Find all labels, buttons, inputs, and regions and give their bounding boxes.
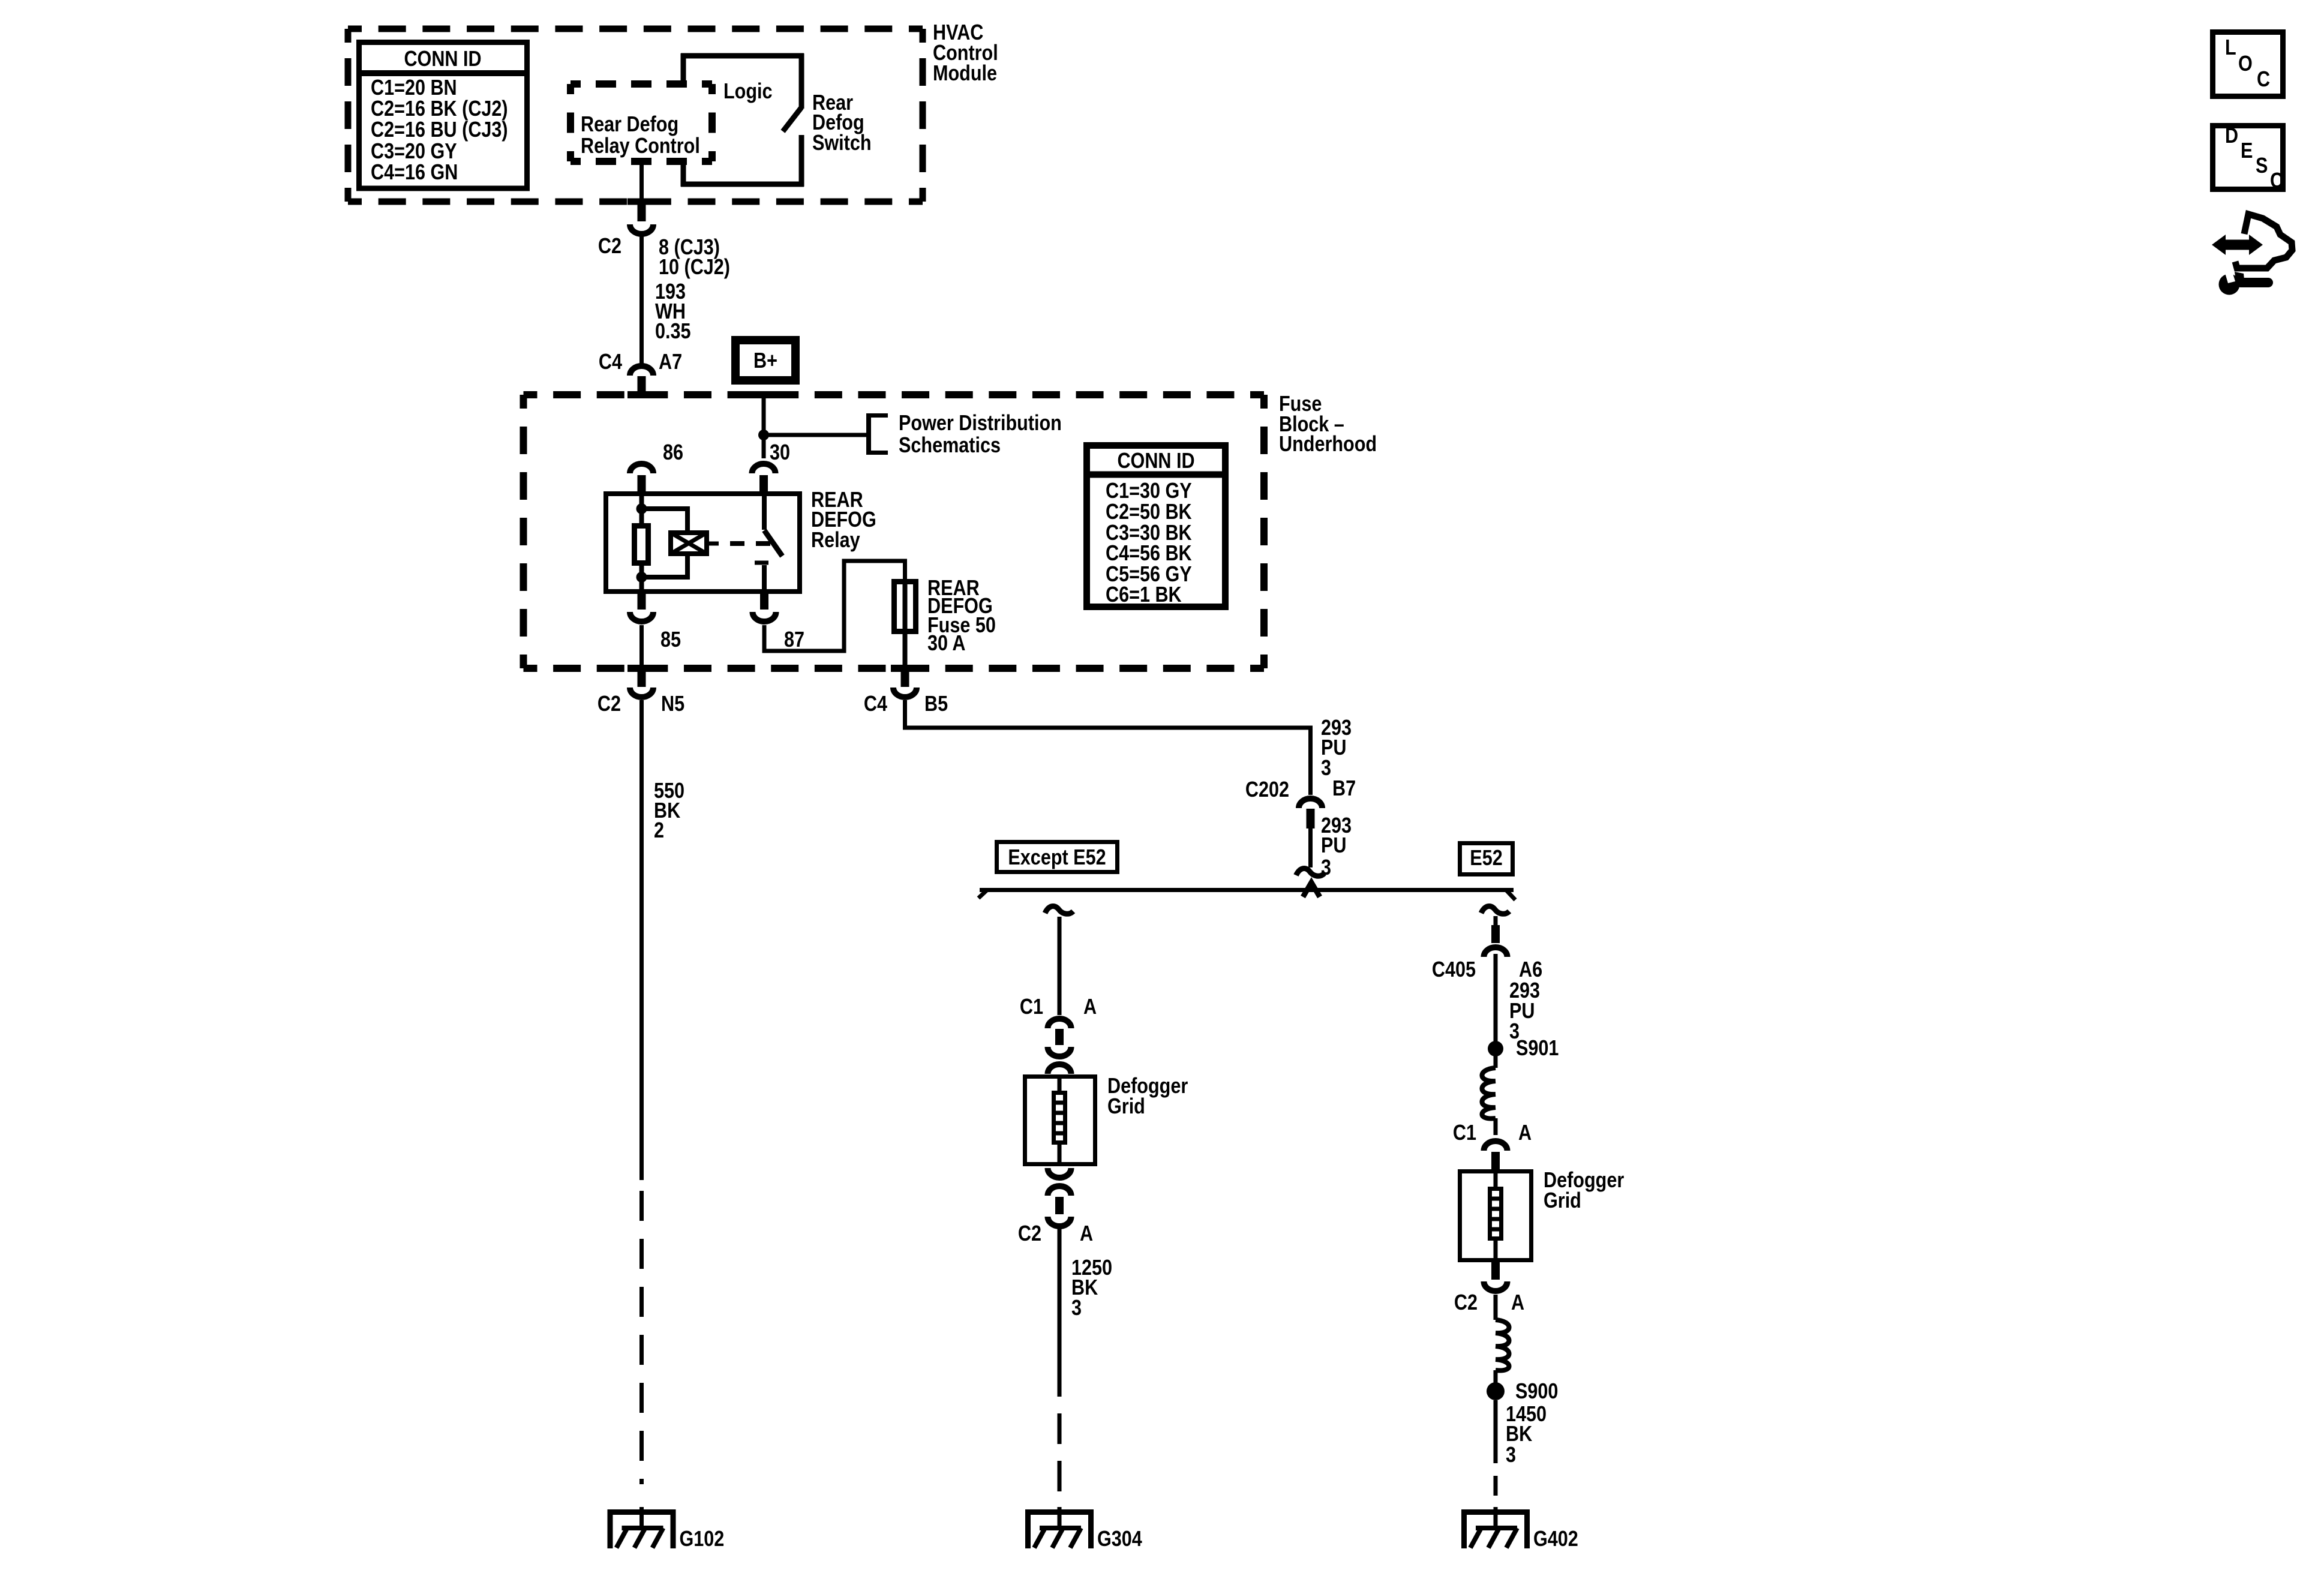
svg-text:E: E — [2241, 139, 2253, 163]
connector C405 A6 — [1432, 958, 1542, 982]
svg-text:D: D — [2225, 124, 2238, 148]
svg-text:E52: E52 — [1470, 846, 1502, 870]
svg-text:C3=20 GY: C3=20 GY — [371, 140, 457, 164]
svg-text:C1=30 GY: C1=30 GY — [1106, 479, 1192, 503]
coiled wire 2 — [1496, 1295, 1509, 1383]
svg-text:3: 3 — [1321, 757, 1331, 781]
connector C2 N5 — [597, 668, 684, 716]
svg-text:C4: C4 — [864, 692, 887, 716]
svg-text:30: 30 — [770, 441, 790, 465]
svg-text:O: O — [2238, 52, 2253, 76]
wire relay control to C2 — [639, 161, 644, 205]
svg-text:Except E52: Except E52 — [1008, 846, 1106, 870]
relay switch — [755, 496, 782, 594]
svg-text:B+: B+ — [753, 349, 777, 373]
svg-text:C202: C202 — [1245, 778, 1289, 802]
splice S901 — [1488, 1037, 1559, 1061]
direction/repair icon — [2212, 214, 2292, 295]
svg-text:C: C — [2257, 68, 2270, 92]
svg-text:0.35: 0.35 — [655, 320, 691, 344]
svg-text:PU: PU — [1321, 834, 1346, 858]
junction node — [758, 430, 769, 440]
wire B5 to C202 — [905, 700, 1311, 795]
svg-text:S: S — [2256, 154, 2268, 178]
wire to power distribution schematics — [764, 433, 869, 437]
ground G304 — [1025, 1507, 1142, 1551]
dashed wire to G102 — [639, 1191, 644, 1484]
svg-text:A: A — [1518, 1121, 1532, 1145]
svg-text:C2: C2 — [1454, 1291, 1478, 1315]
svg-text:C2=16 BK (CJ2): C2=16 BK (CJ2) — [371, 97, 508, 121]
svg-text:87: 87 — [784, 628, 804, 652]
relay pin 87 connector — [753, 594, 805, 652]
ground G102 — [608, 1507, 725, 1551]
svg-text:C1: C1 — [1020, 995, 1043, 1019]
svg-text:B5: B5 — [924, 692, 948, 716]
bracket — [869, 413, 888, 455]
svg-text:CONN ID: CONN ID — [404, 47, 481, 71]
C202 lower connector half — [1296, 868, 1325, 876]
right branch drop — [1481, 906, 1509, 957]
svg-text:3: 3 — [1506, 1443, 1516, 1467]
svg-text:3: 3 — [1071, 1296, 1082, 1320]
Logic box — [681, 53, 804, 187]
Fuse Block - Underhood dashed box — [524, 395, 1265, 668]
svg-text:N5: N5 — [661, 692, 684, 716]
svg-text:C2: C2 — [1018, 1222, 1041, 1246]
connector C2 A left — [1018, 1168, 1093, 1246]
connector C1 A left — [1020, 995, 1097, 1074]
wire 85 down — [639, 625, 644, 668]
svg-text:C1: C1 — [1453, 1121, 1476, 1145]
wire 293 PU 3 below C202 — [1311, 814, 1352, 880]
svg-text:Logic: Logic — [723, 80, 773, 104]
HVAC Control Module dashed box — [348, 29, 923, 202]
svg-text:A: A — [1083, 995, 1097, 1019]
svg-text:Switch: Switch — [812, 131, 872, 155]
svg-text:BK: BK — [1506, 1422, 1532, 1446]
svg-text:C2=16 BU (CJ3): C2=16 BU (CJ3) — [371, 118, 508, 142]
svg-text:G402: G402 — [1533, 1527, 1578, 1551]
svg-text:Schematics: Schematics — [899, 434, 1001, 458]
dashed wire to G304 — [1058, 1413, 1062, 1494]
svg-text:C2: C2 — [598, 235, 621, 259]
svg-text:Underhood: Underhood — [1279, 433, 1377, 457]
svg-text:Grid: Grid — [1544, 1189, 1581, 1213]
relay pin 86 connector — [630, 441, 683, 495]
ground G402 — [1461, 1507, 1578, 1551]
svg-text:C1=20 BN: C1=20 BN — [371, 76, 457, 100]
wire B+ down to relay pin 30 — [762, 393, 766, 458]
svg-text:86: 86 — [663, 441, 683, 465]
svg-text:B7: B7 — [1332, 777, 1356, 801]
svg-text:L: L — [2225, 36, 2236, 60]
REAR DEFOG Relay label — [811, 488, 876, 553]
svg-text:Power Distribution: Power Distribution — [899, 412, 1062, 436]
svg-text:30 A: 30 A — [927, 632, 965, 656]
svg-text:85: 85 — [660, 628, 681, 652]
LOC icon box — [2213, 32, 2283, 97]
Fuse Block label — [1279, 392, 1377, 457]
svg-text:10 (CJ2): 10 (CJ2) — [659, 256, 730, 280]
svg-text:C6=1 BK: C6=1 BK — [1106, 583, 1182, 607]
svg-text:2: 2 — [654, 819, 664, 843]
Except E52 box — [997, 842, 1118, 872]
Defogger Grid right — [1460, 1169, 1625, 1260]
svg-text:Grid: Grid — [1107, 1095, 1145, 1119]
svg-text:Relay Control: Relay Control — [581, 134, 700, 158]
coiled wire — [1482, 1055, 1496, 1135]
option split bus wire — [978, 882, 1515, 900]
svg-text:G304: G304 — [1097, 1527, 1142, 1551]
wire 193 WH 0.35 — [642, 235, 691, 364]
connector C4 pin A7 — [599, 350, 682, 395]
connector C1 A right — [1453, 1121, 1532, 1172]
relay pin 30 connector — [752, 441, 791, 495]
svg-text:Rear Defog: Rear Defog — [581, 113, 678, 137]
wire 1250 BK 3 — [1059, 1229, 1112, 1397]
rear defog switch blade — [783, 107, 801, 187]
svg-text:Module: Module — [933, 62, 997, 86]
Fuse block CONN ID table — [1087, 446, 1226, 607]
connector C202 B7 — [1245, 777, 1356, 828]
svg-text:C4=16 GN: C4=16 GN — [371, 161, 458, 185]
wire 550 BK 2 — [642, 700, 685, 1180]
svg-text:S900: S900 — [1515, 1380, 1558, 1404]
svg-text:A: A — [1511, 1291, 1524, 1315]
wire 87 to fuse — [764, 561, 905, 651]
relay coil circuit — [635, 495, 771, 594]
connector C4 B5 — [864, 668, 948, 716]
svg-text:A7: A7 — [659, 350, 682, 374]
wire 293 PU 3 — [1496, 954, 1540, 1044]
REAR DEFOG Fuse 50 30A — [894, 577, 996, 668]
HVAC CONN ID table — [359, 43, 527, 189]
DESC icon box — [2213, 124, 2284, 193]
HVAC Control Module label — [933, 21, 998, 86]
connector C2 A right — [1454, 1261, 1524, 1315]
svg-text:C4: C4 — [599, 350, 622, 374]
svg-text:C: C — [2270, 169, 2283, 193]
B+ power symbol — [735, 340, 795, 380]
svg-text:C2: C2 — [597, 692, 621, 716]
wire 1450 BK 3 — [1496, 1400, 1547, 1467]
relay pin 85 connector — [630, 594, 681, 652]
E52 box — [1460, 843, 1513, 875]
Defogger Grid left — [1025, 1074, 1188, 1166]
svg-text:G102: G102 — [680, 1527, 725, 1551]
dashed wire to G402 — [1494, 1476, 1498, 1507]
left branch drop — [1045, 906, 1073, 1015]
svg-text:C405: C405 — [1432, 958, 1476, 982]
Rear Defog Relay Control box — [571, 84, 712, 161]
REAR DEFOG Relay box — [606, 494, 800, 592]
svg-text:C2=50 BK: C2=50 BK — [1106, 500, 1192, 524]
svg-text:A: A — [1080, 1222, 1093, 1246]
svg-text:C4=56 BK: C4=56 BK — [1106, 542, 1192, 566]
svg-text:A6: A6 — [1519, 958, 1542, 982]
svg-text:Relay: Relay — [811, 529, 860, 553]
connector C2 pin 8/10 — [598, 203, 730, 280]
svg-text:CONN ID: CONN ID — [1117, 449, 1194, 473]
svg-text:S901: S901 — [1516, 1037, 1559, 1061]
splice S900 — [1487, 1380, 1558, 1404]
